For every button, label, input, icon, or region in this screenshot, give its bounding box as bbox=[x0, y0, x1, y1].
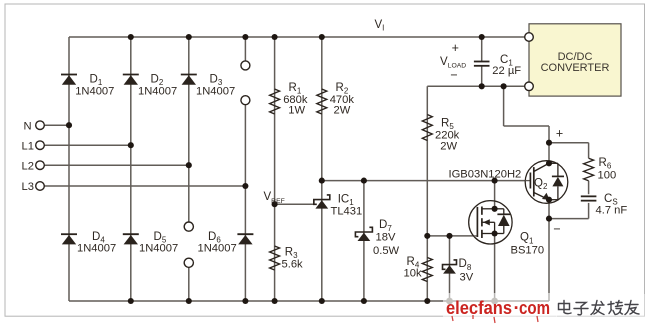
svg-text:18V: 18V bbox=[376, 232, 396, 244]
label IGB03N120H2 bbox=[449, 169, 522, 181]
diode D1 bbox=[61, 75, 77, 85]
label D1 bbox=[75, 74, 114, 98]
svg-text:1N4007: 1N4007 bbox=[77, 243, 116, 255]
diode D4 bbox=[61, 234, 77, 244]
watermark chinese characters bbox=[559, 301, 640, 315]
svg-text:−: − bbox=[553, 222, 560, 236]
link terminals lower pair bbox=[184, 222, 193, 267]
wire L3 input bbox=[44, 185, 245, 187]
label R4 bbox=[404, 256, 422, 280]
label R6 bbox=[598, 157, 617, 182]
watermark lightening bbox=[443, 293, 557, 317]
svg-text:5.6k: 5.6k bbox=[282, 259, 304, 271]
resistor R6 bbox=[584, 158, 594, 181]
svg-text:N: N bbox=[24, 120, 32, 132]
terminal L2 bbox=[36, 161, 45, 170]
svg-text:elecfans: elecfans bbox=[446, 297, 512, 318]
wire L1 input bbox=[44, 144, 131, 146]
svg-text:0.5W: 0.5W bbox=[373, 245, 400, 257]
svg-text:1N4007: 1N4007 bbox=[196, 85, 235, 97]
terminal N bbox=[36, 121, 45, 130]
svg-text:R6: R6 bbox=[599, 157, 612, 171]
svg-text:com: com bbox=[519, 297, 550, 318]
svg-text:3V: 3V bbox=[460, 271, 474, 283]
wire R6 to Cs bbox=[588, 181, 590, 194]
svg-text:−: − bbox=[450, 68, 457, 82]
label N bbox=[24, 120, 32, 132]
label IC1 TL431 bbox=[331, 194, 363, 218]
shunt regulator IC1 TL431 bbox=[314, 195, 330, 209]
label Q1 BS170 bbox=[511, 232, 545, 257]
label D8 bbox=[459, 258, 474, 283]
resistor R3 bbox=[270, 246, 280, 270]
pin DC/DC input bottom bbox=[525, 82, 534, 91]
svg-text:VI: VI bbox=[375, 19, 385, 33]
label D2 bbox=[138, 74, 177, 98]
wire column D1/D4 bbox=[68, 37, 70, 301]
svg-text:10k: 10k bbox=[404, 268, 422, 280]
svg-text:L3: L3 bbox=[22, 181, 34, 193]
wire Q1 gate rail bbox=[427, 235, 474, 237]
label VREF bbox=[264, 191, 285, 205]
label D6 bbox=[198, 231, 237, 255]
diode D3 bbox=[181, 75, 197, 85]
transistor Q1 BS170 MOSFET bbox=[469, 201, 512, 244]
wire C1 column bbox=[481, 37, 483, 86]
wire L2 input bbox=[44, 164, 189, 166]
svg-text:D8: D8 bbox=[459, 258, 472, 272]
label L2 bbox=[22, 160, 34, 172]
svg-text:22 µF: 22 µF bbox=[492, 65, 521, 77]
wire VREF bbox=[275, 203, 314, 205]
node junction dots under watermark bbox=[446, 298, 498, 305]
wire N input bbox=[44, 124, 69, 126]
svg-text:1N4007: 1N4007 bbox=[75, 85, 114, 97]
resistor R4 bbox=[422, 258, 432, 282]
DC/DC converter block bbox=[529, 24, 621, 96]
wire Q1 source lead bbox=[494, 234, 496, 302]
resistor R1 bbox=[270, 89, 280, 114]
wire Q2 emitter lead bbox=[548, 200, 550, 301]
wire column R1/R3 bbox=[274, 37, 276, 301]
diode D6 bbox=[237, 234, 253, 244]
resistor R5 bbox=[422, 115, 432, 141]
wire column D2/D5 bbox=[130, 37, 132, 301]
label C1 value bbox=[492, 54, 521, 77]
wire column D8 bbox=[449, 236, 451, 301]
wire column R2/IC1 bbox=[321, 37, 323, 301]
svg-text:Q1: Q1 bbox=[520, 232, 534, 246]
svg-text:IGB03N120H2: IGB03N120H2 bbox=[449, 169, 522, 181]
wire column link upper bbox=[244, 37, 246, 61]
pin DC/DC input top bbox=[525, 33, 534, 42]
label R3 bbox=[282, 247, 304, 271]
svg-text:TL431: TL431 bbox=[331, 205, 363, 217]
label Q2 bbox=[534, 178, 548, 192]
wire bottom rail bbox=[69, 300, 549, 302]
wire Q2 collector to R6 bbox=[549, 143, 589, 159]
wire branch to Q2 collector bbox=[504, 86, 549, 142]
wire column D7 bbox=[363, 181, 365, 301]
svg-text:2W: 2W bbox=[440, 140, 457, 152]
zener diode D8 bbox=[443, 260, 457, 274]
wire column D3 upper bbox=[188, 37, 190, 222]
link terminals upper pair bbox=[241, 61, 250, 105]
capacitor C1 bbox=[474, 62, 490, 66]
label R5 bbox=[435, 118, 460, 153]
wire column D3 lower below link bbox=[188, 267, 190, 301]
wire Cs to Q2 emitter node bbox=[549, 203, 589, 219]
svg-text:1N4007: 1N4007 bbox=[198, 243, 237, 255]
label D4 bbox=[77, 231, 116, 255]
wire VLOAD minus rail bbox=[427, 85, 525, 87]
svg-text:+: + bbox=[556, 127, 563, 141]
label L1 bbox=[22, 140, 34, 152]
svg-text:1W: 1W bbox=[288, 104, 305, 116]
wire top rail VI bbox=[69, 36, 525, 38]
diode D5 bbox=[123, 234, 139, 244]
svg-text:100: 100 bbox=[598, 170, 617, 182]
wire column R5/R4 bbox=[426, 86, 428, 301]
label D5 bbox=[139, 231, 178, 255]
svg-text:4.7 nF: 4.7 nF bbox=[596, 204, 628, 216]
label R1 bbox=[283, 82, 308, 116]
svg-text:L1: L1 bbox=[22, 140, 34, 152]
label CS value bbox=[596, 193, 628, 217]
zener diode D7 bbox=[355, 227, 372, 241]
watermark elecfans.com bbox=[446, 297, 550, 323]
terminal L3 bbox=[36, 182, 45, 191]
terminal L1 bbox=[36, 141, 45, 150]
label plus at Q2 collector bbox=[556, 127, 563, 141]
capacitor CS bbox=[581, 196, 597, 200]
label D3 bbox=[196, 74, 235, 98]
svg-text:CONVERTER: CONVERTER bbox=[541, 62, 610, 74]
svg-text:L2: L2 bbox=[22, 160, 34, 172]
svg-text:2W: 2W bbox=[334, 104, 351, 116]
wire gate rail to Q2 bbox=[322, 180, 526, 182]
node VI label bbox=[375, 19, 385, 33]
label minus at Q2 emitter bbox=[553, 222, 560, 236]
svg-text:1N4007: 1N4007 bbox=[138, 85, 177, 97]
label R2 bbox=[330, 82, 355, 116]
svg-text:1N4007: 1N4007 bbox=[139, 243, 178, 255]
node junction dots bbox=[66, 34, 552, 304]
svg-text:BS170: BS170 bbox=[511, 244, 545, 256]
label L3 bbox=[22, 181, 34, 193]
wire column D6 bbox=[244, 105, 246, 301]
svg-text:+: + bbox=[452, 41, 459, 55]
wire Q2 collector lead bbox=[548, 143, 550, 164]
wire Q1 drain lead bbox=[494, 181, 496, 209]
label VLOAD bbox=[440, 41, 466, 82]
resistor R2 bbox=[317, 89, 327, 114]
diode D2 bbox=[123, 75, 139, 85]
label D7 bbox=[373, 219, 400, 257]
svg-text:Q2: Q2 bbox=[534, 178, 548, 192]
transistor Q2 IGB03N120H2 IGBT bbox=[525, 161, 568, 204]
